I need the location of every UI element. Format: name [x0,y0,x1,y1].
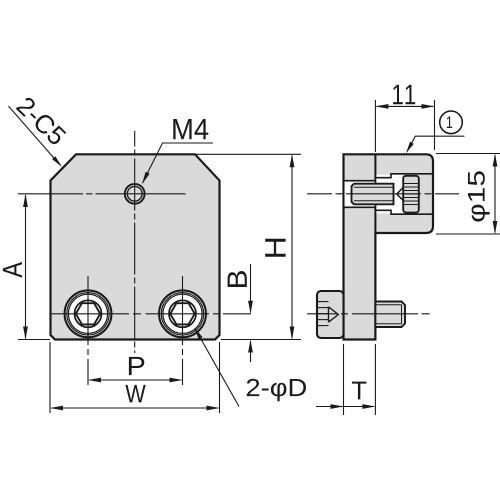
dim B line lower [250,341,252,362]
dim 11 line [377,105,434,107]
bore lines in plate (top hole) [344,180,376,182]
P left arrow [88,378,101,383]
dim W line [51,407,218,409]
dim text B [228,271,247,287]
dim H line [291,156,293,339]
2-C5 leader arrow [52,156,62,167]
T right arrow (inside pointing right) [362,404,375,409]
balloon leader arrow [406,142,414,154]
dim A extension bottom [18,339,50,341]
dim phi15 extensions [436,153,500,155]
dim H extensions [196,153,301,155]
adjust screw shank (threaded) [352,184,394,205]
2-phiD leader arrow [195,328,203,340]
A top arrow [23,194,28,207]
M4 leader arrow [142,172,150,185]
phi15 top arrow [493,154,498,167]
P right arrow [170,378,183,383]
H top arrow [290,154,295,167]
dim A line [25,195,27,339]
arrowheads [23,104,497,410]
recess step outline top [375,174,433,178]
dim text T [352,382,367,400]
adjust screw knurled head [403,176,419,213]
bottom screw threaded end (side view) [375,302,405,328]
bottom screw socket cone (side view) [329,307,339,322]
balloon text 1 [447,116,452,128]
plate back edge line through boss [374,154,376,183]
left counterbore hole with socket head screw [65,290,112,337]
right screw vertical centerline [182,276,184,385]
bore recess (white) behind adjust screw [376,175,402,214]
phi15 bottom arrow [493,221,498,234]
dim phi15 line [494,155,496,233]
label 2-C5 [16,96,68,147]
dim text 11 [393,85,415,104]
dim W extensions [49,342,51,413]
M4 tapped hole [125,184,145,204]
dim T extensions [343,344,345,415]
recess step outline bottom [375,210,433,214]
side view body: plate bar + round boss [344,154,434,339]
dim text P [129,357,144,375]
top screw axis centerline [307,193,459,195]
dim text A [3,262,22,278]
11 left arrow [375,104,388,109]
adjust screw socket cone [397,187,404,200]
A bottom arrow [23,327,28,340]
B lower arrow (up) [248,340,253,353]
leader 2-C5 [8,106,60,165]
bottom screw head (side view) [317,291,344,338]
M4 hole horizontal centerline / A top extension [18,193,186,195]
W right arrow [207,406,220,411]
bottom screw axis centerline [307,313,430,315]
dim B line upper [250,264,252,313]
balloon circle 1 [440,111,463,134]
dim text W [125,385,145,403]
leader M4 [143,143,214,183]
leader 2-phiD [195,329,239,407]
dim P line [89,379,181,381]
dim T line [316,406,374,408]
plate body (front view, chamfered corners) [51,154,220,339]
screw holes horizontal centerline [50,313,253,315]
H bottom arrow [290,327,295,340]
dim 11 extensions [374,100,376,152]
M4 hole vertical centerline [134,131,136,353]
dim text phi15 [468,171,490,221]
left screw vertical centerline [87,276,89,385]
B upper arrow (down) [248,301,253,314]
label 2-phiD [247,379,306,401]
label M4 [173,119,208,139]
right counterbore hole with socket head screw [159,290,206,337]
leader balloon 1 [407,136,465,151]
11 right arrow [422,104,435,109]
T left arrow (outside pointing right) [331,404,344,409]
W left arrow [50,406,63,411]
dim text H [265,239,285,257]
